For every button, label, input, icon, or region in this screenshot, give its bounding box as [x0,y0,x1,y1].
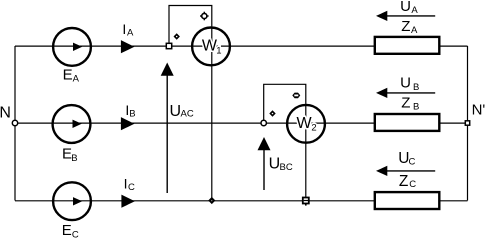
node N' (open square) [465,121,469,125]
svg-text:AC: AC [181,109,194,120]
load Z_C [375,173,440,209]
svg-text:BC: BC [280,162,293,173]
svg-text:U: U [269,155,281,172]
load Z_A [375,18,440,54]
svg-text:C: C [409,157,416,168]
current arrow I_B [121,102,136,130]
W1 polarity mark (diamond) [174,33,180,39]
wattmeter W1 [192,28,230,66]
svg-text:U: U [400,0,411,15]
source E_C [53,182,91,240]
svg-text:A: A [411,5,418,16]
svg-text:I: I [124,175,128,191]
voltage arrow U_BC [258,137,293,190]
svg-text:C: C [72,229,79,240]
svg-text:B: B [413,101,419,112]
svg-text:E: E [63,67,73,84]
junction: W1 lead to phase C (diamond) [208,197,215,204]
node: W2 box tap on phase B (open circle) [261,120,266,125]
wattmeter W2 voltage-coil box [264,84,306,123]
svg-text:Z: Z [401,18,410,35]
svg-text:U: U [400,75,411,92]
load Z_B [375,94,440,131]
wire: phase A horizontal [15,45,468,47]
wire: right vertical bus N' side [467,46,469,201]
svg-text:W: W [297,115,313,132]
svg-text:A: A [127,28,134,39]
svg-text:2: 2 [311,122,316,133]
svg-text:Z: Z [399,173,408,190]
svg-text:A: A [411,25,418,36]
W2 polarity mark (diamond) [269,110,275,116]
svg-text:B: B [129,108,135,119]
wire: phase C horizontal [15,200,468,202]
current arrow I_C [121,175,135,208]
svg-text:C: C [409,179,416,190]
svg-text:Z: Z [401,94,410,111]
svg-text:C: C [128,182,135,193]
W1 polarity mark (asterisk circle) [200,12,209,21]
wattmeter W2 [287,105,325,143]
wire: W2 voltage lead down to phase C [305,104,307,201]
source E_A [53,28,91,85]
voltage arrow U_B [376,75,435,98]
svg-text:1: 1 [216,46,221,57]
svg-text:I: I [122,21,126,37]
wire: left vertical bus N side [14,46,16,201]
voltage arrow U_AC [161,63,194,194]
wire: phase B horizontal [15,122,468,124]
voltage arrow U_C [376,150,435,176]
junction: W2 lead to phase C (open square) [303,198,309,204]
node: W1 box tap on phase A (open square) [166,43,171,48]
svg-text:N': N' [472,102,485,119]
wire: W1 voltage lead down to phase C [211,26,213,200]
wattmeter W1 voltage-coil box [169,6,212,47]
svg-text:B: B [71,153,77,164]
W2 polarity mark (wide slot) [292,93,300,99]
svg-text:N: N [0,104,11,121]
svg-text:B: B [413,82,419,93]
svg-text:E: E [62,222,72,239]
svg-text:U: U [170,103,182,120]
source E_B [53,105,91,164]
voltage arrow U_A [376,0,435,21]
current arrow I_A [121,21,134,53]
node N (open circle) [12,120,17,125]
svg-text:A: A [73,74,80,85]
